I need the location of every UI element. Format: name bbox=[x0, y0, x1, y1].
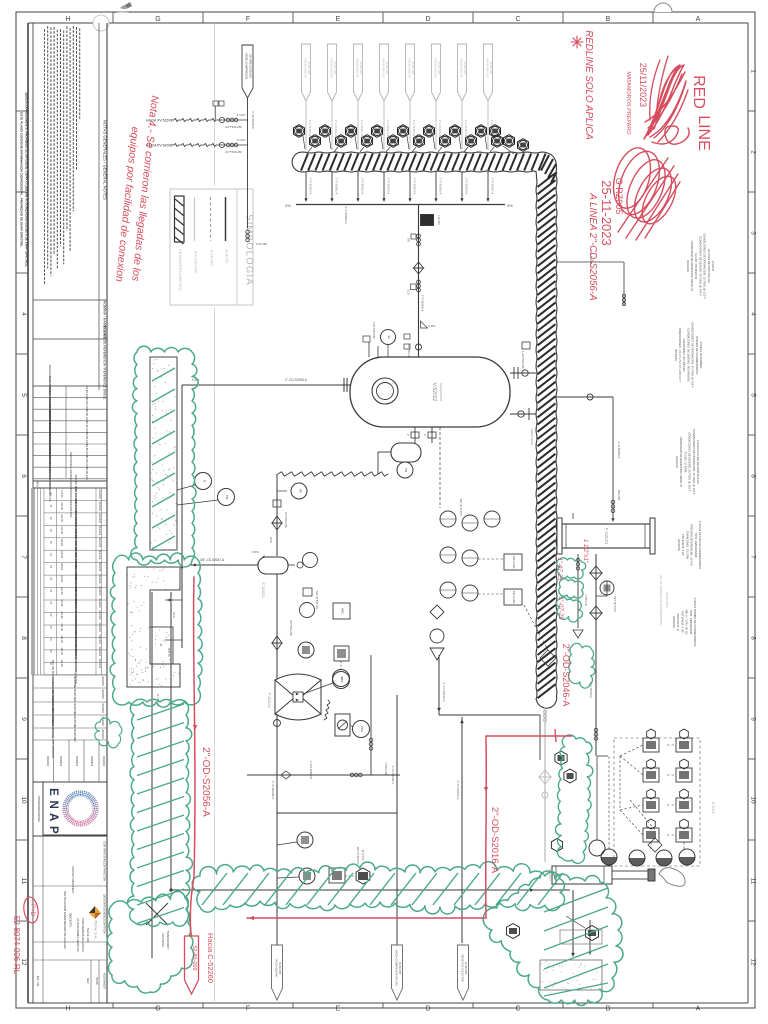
svg-text:GB JM: GB JM bbox=[60, 575, 63, 582]
svg-text:TRANSPORT.: TRANSPORT. bbox=[166, 931, 170, 950]
svg-text:REV.: REV. bbox=[36, 482, 40, 488]
svg-text:LINE: LINE bbox=[695, 115, 712, 151]
svg-text:(NUEVO): (NUEVO) bbox=[677, 539, 681, 551]
svg-text:TW: TW bbox=[225, 495, 229, 500]
svg-text:3/4"-CS-52057-A: 3/4"-CS-52057-A bbox=[200, 558, 225, 562]
svg-text:G: G bbox=[155, 1006, 160, 1013]
svg-text:SEPARADOR: SEPARADOR bbox=[439, 383, 443, 402]
svg-text:(NUEVO): (NUEVO) bbox=[686, 260, 690, 272]
svg-text:01/10/23: 01/10/23 bbox=[98, 586, 101, 596]
svg-text:03/10/23: 03/10/23 bbox=[101, 729, 104, 739]
svg-text:NOTAS GENERALES / GENERAL NOTE: NOTAS GENERALES / GENERAL NOTES bbox=[103, 120, 108, 200]
svg-text:ARC: ARC bbox=[341, 608, 345, 614]
svg-text:C: C bbox=[515, 1006, 520, 1013]
svg-text:2": 2" bbox=[423, 434, 427, 436]
svg-text:GB JM: GB JM bbox=[60, 611, 63, 618]
svg-text:DCO: DCO bbox=[407, 289, 410, 294]
svg-text:GB JM: GB JM bbox=[60, 502, 63, 509]
svg-text:D: D bbox=[425, 1006, 430, 1013]
svg-text:T500-05: T500-05 bbox=[167, 647, 170, 657]
svg-text:LIC AO: LIC AO bbox=[437, 215, 441, 225]
svg-text:RECINTO: RECINTO bbox=[69, 913, 73, 927]
svg-text:C: C bbox=[515, 16, 520, 23]
svg-text:SET @ 5 PSI: SET @ 5 PSI bbox=[613, 596, 617, 612]
svg-text:5: 5 bbox=[20, 393, 27, 397]
svg-text:4"-G-50009-A: 4"-G-50009-A bbox=[391, 766, 395, 784]
svg-text:E: E bbox=[47, 788, 59, 796]
svg-text:LI: LI bbox=[387, 336, 391, 339]
svg-text:1 1/2"T500-25F: 1 1/2"T500-25F bbox=[372, 321, 375, 339]
svg-text:TI: TI bbox=[202, 480, 206, 483]
svg-text:01/10/23: 01/10/23 bbox=[98, 489, 101, 499]
svg-text:SIMBOLOGIA: SIMBOLOGIA bbox=[244, 214, 255, 286]
svg-text:P: P bbox=[47, 826, 59, 834]
svg-text:2"-OD-S2016-A: 2"-OD-S2016-A bbox=[489, 807, 500, 874]
svg-text:REVISIONES / REVIEW DESCRIP: REVISIONES / REVIEW DESCRIPCION/DESCRIPT… bbox=[69, 452, 73, 518]
svg-text:F-52024: F-52024 bbox=[604, 528, 609, 545]
svg-text:1"-07-25: 1"-07-25 bbox=[556, 558, 562, 581]
svg-text:1: 1 bbox=[750, 69, 757, 73]
svg-text:FUT-25F: FUT-25F bbox=[256, 242, 267, 246]
svg-text:GB JM: GB JM bbox=[60, 551, 63, 558]
svg-text:K-52102: K-52102 bbox=[711, 802, 715, 814]
svg-text:52-80-0154: 52-80-0154 bbox=[665, 592, 669, 608]
svg-text:2"-OD-S2046-A: 2"-OD-S2046-A bbox=[561, 644, 571, 707]
svg-text:11: 11 bbox=[20, 878, 27, 885]
svg-text:GB JM: GB JM bbox=[60, 623, 63, 630]
svg-text:2"-F-50005-A: 2"-F-50005-A bbox=[439, 178, 443, 195]
svg-text:SET @ 550 PSI: SET @ 550 PSI bbox=[315, 591, 319, 610]
svg-text:52-80-000: 52-80-000 bbox=[307, 62, 311, 75]
svg-text:PAH: PAH bbox=[360, 726, 364, 732]
svg-text:03/10/23: 03/10/23 bbox=[101, 676, 104, 686]
svg-text:03/10/23: 03/10/23 bbox=[101, 703, 104, 713]
svg-text:3: 3 bbox=[750, 231, 757, 235]
svg-text:1"T500-25F: 1"T500-25F bbox=[384, 762, 387, 776]
svg-text:1"x3/4": 1"x3/4" bbox=[237, 113, 246, 117]
svg-text:52-80-001: 52-80-001 bbox=[333, 62, 337, 75]
svg-text:1"-F-50003-A: 1"-F-50003-A bbox=[386, 120, 390, 137]
svg-text:03/10/23: 03/10/23 bbox=[90, 756, 94, 767]
svg-text:MW: MW bbox=[407, 238, 410, 243]
svg-text:E: E bbox=[336, 1006, 341, 1013]
svg-text:3/4"T500-25F: 3/4"T500-25F bbox=[225, 125, 242, 129]
svg-text:1"T500-05: 1"T500-05 bbox=[584, 594, 587, 606]
svg-text:1"-07-25: 1"-07-25 bbox=[557, 597, 563, 620]
svg-text:8: 8 bbox=[750, 636, 757, 640]
svg-text:7: 7 bbox=[750, 555, 757, 559]
svg-text:1"-F-50005-A: 1"-F-50005-A bbox=[438, 120, 442, 137]
svg-text:1"-F-50000-A: 1"-F-50000-A bbox=[308, 120, 312, 137]
svg-text:CONTRATISTA/CONTRACTOR: CONTRATISTA/CONTRACTOR bbox=[103, 841, 107, 881]
svg-text:1"x3/4": 1"x3/4" bbox=[237, 138, 246, 142]
svg-text:E: E bbox=[336, 16, 341, 23]
svg-text:G: G bbox=[155, 16, 160, 23]
svg-text:D: D bbox=[425, 16, 430, 23]
svg-text:1"-F-50004-A: 1"-F-50004-A bbox=[412, 120, 416, 137]
svg-text:2"-F-50005-A: 2"-F-50005-A bbox=[421, 295, 425, 312]
svg-text:DCO: DCO bbox=[172, 612, 175, 618]
svg-text:GB JM: GB JM bbox=[60, 563, 63, 570]
svg-text:52-80-008: 52-80-008 bbox=[398, 962, 402, 974]
svg-text:Prime S.A.: Prime S.A. bbox=[94, 920, 99, 939]
svg-text:PLANOS DE REFERENCIA / REFEREN: PLANOS DE REFERENCIA / REFERENCE DWGS. bbox=[103, 326, 107, 400]
svg-text:SET TO 80 PSI: SET TO 80 PSI bbox=[356, 846, 359, 863]
svg-text:01/10/23: 01/10/23 bbox=[98, 635, 101, 645]
svg-text:G RZ005: G RZ005 bbox=[614, 178, 624, 215]
svg-text:F-52023: F-52023 bbox=[261, 583, 266, 599]
svg-text:RED: RED bbox=[690, 75, 707, 109]
svg-text:2"-F-50004-A: 2"-F-50004-A bbox=[413, 178, 417, 195]
svg-text:03/10/23: 03/10/23 bbox=[46, 756, 50, 767]
svg-text:03/10/23: 03/10/23 bbox=[102, 756, 106, 767]
svg-text:01/10/23: 01/10/23 bbox=[98, 647, 101, 657]
svg-text:2"-CD-S2056-A: 2"-CD-S2056-A bbox=[285, 378, 308, 382]
svg-text:GB JM: GB JM bbox=[60, 636, 63, 643]
svg-text:8: 8 bbox=[20, 636, 27, 640]
svg-text:F: F bbox=[246, 16, 250, 23]
svg-text:52-80-002: 52-80-002 bbox=[359, 62, 363, 75]
svg-text:3/4"T500-25F: 3/4"T500-25F bbox=[225, 150, 242, 154]
svg-text:7: 7 bbox=[20, 555, 27, 559]
svg-text:2"-F-50003-A: 2"-F-50003-A bbox=[387, 178, 391, 195]
svg-text:5: 5 bbox=[750, 393, 757, 397]
svg-text:QUEDA EXPRESAMENTE PROHIBIDA S: QUEDA EXPRESAMENTE PROHIBIDA SU DIFUSION… bbox=[25, 93, 29, 268]
svg-text:52-80-004: 52-80-004 bbox=[411, 62, 415, 75]
svg-text:03/10/23: 03/10/23 bbox=[59, 756, 63, 767]
svg-text:01/10/23: 01/10/23 bbox=[98, 562, 101, 572]
svg-text:V-52022: V-52022 bbox=[431, 383, 437, 402]
svg-text:1/2"T500-25F: 1/2"T500-25F bbox=[284, 512, 288, 528]
svg-text:FUTURO: FUTURO bbox=[210, 250, 215, 267]
svg-text:GB JM: GB JM bbox=[60, 490, 63, 497]
svg-text:9: 9 bbox=[20, 717, 27, 721]
svg-text:VIENE PIG COLECTOR: VIENE PIG COLECTOR bbox=[461, 954, 465, 982]
svg-text:DCO: DCO bbox=[269, 537, 273, 543]
svg-text:52-80-007: 52-80-007 bbox=[489, 62, 493, 75]
svg-text:1"-F-50006-A: 1"-F-50006-A bbox=[464, 120, 468, 137]
svg-text:50-80: 50-80 bbox=[95, 977, 99, 985]
svg-text:GB JM: GB JM bbox=[60, 660, 63, 667]
svg-text:4: 4 bbox=[20, 312, 27, 316]
svg-text:6: 6 bbox=[20, 474, 27, 478]
svg-text:INSTALACION COMPRESOR DE GAS E: INSTALACION COMPRESOR DE GAS EN bbox=[63, 891, 67, 948]
svg-text:B: B bbox=[606, 1006, 611, 1013]
svg-text:Hacia C-52260: Hacia C-52260 bbox=[206, 933, 215, 983]
svg-text:GB JM: GB JM bbox=[60, 539, 63, 546]
svg-text:DE AIRE 52-80-010: DE AIRE 52-80-010 bbox=[249, 54, 253, 78]
svg-text:9: 9 bbox=[750, 717, 757, 721]
svg-text:4: 4 bbox=[750, 312, 757, 316]
svg-text:(NUEVO): (NUEVO) bbox=[675, 456, 679, 468]
svg-text:01/10/23: 01/10/23 bbox=[98, 659, 101, 669]
svg-text:PG: PG bbox=[404, 468, 408, 473]
svg-text:H: H bbox=[65, 16, 70, 23]
svg-text:1"-FL-50010-A: 1"-FL-50010-A bbox=[442, 682, 446, 702]
svg-text:52-80-005: 52-80-005 bbox=[437, 62, 441, 75]
svg-text:3/4"T500-25F: 3/4"T500-25F bbox=[289, 620, 293, 636]
svg-text:52-80-009: 52-80-009 bbox=[191, 945, 197, 970]
svg-text:25/11/2023: 25/11/2023 bbox=[638, 63, 648, 107]
svg-text:ARC: ARC bbox=[340, 677, 344, 683]
svg-text:TEA R-301: TEA R-301 bbox=[86, 928, 90, 943]
svg-text:11: 11 bbox=[750, 878, 757, 885]
svg-text:01/10/23: 01/10/23 bbox=[98, 574, 101, 584]
svg-text:01/10/23: 01/10/23 bbox=[98, 538, 101, 548]
svg-text:1"-CS-52003-B: 1"-CS-52003-B bbox=[309, 761, 313, 779]
svg-text:2": 2" bbox=[406, 434, 410, 436]
svg-text:2"-F-50001-A: 2"-F-50001-A bbox=[335, 178, 339, 195]
svg-text:1 1/2"x1": 1 1/2"x1" bbox=[582, 539, 588, 564]
svg-text:A: A bbox=[696, 1006, 701, 1013]
svg-text:1 1/2"T500-25F: 1 1/2"T500-25F bbox=[521, 351, 525, 369]
svg-text:ESC. S/E: ESC. S/E bbox=[36, 976, 39, 987]
svg-text:N: N bbox=[47, 800, 59, 808]
svg-text:01/10/23: 01/10/23 bbox=[98, 550, 101, 560]
svg-text:01/10/23: 01/10/23 bbox=[98, 501, 101, 511]
svg-text:2"-F-50002-A: 2"-F-50002-A bbox=[361, 178, 365, 195]
svg-text:4%: 4% bbox=[507, 203, 513, 208]
svg-text:REV: REV bbox=[86, 978, 89, 983]
svg-text:P+D: P+D bbox=[29, 904, 35, 917]
svg-text:B: B bbox=[606, 16, 611, 23]
svg-text:03/10/23: 03/10/23 bbox=[101, 689, 104, 699]
svg-text:GB JM: GB JM bbox=[60, 527, 63, 534]
svg-text:P-52024: P-52024 bbox=[267, 692, 272, 708]
svg-text:6: 6 bbox=[750, 474, 757, 478]
svg-text:1"-IA-52009-A: 1"-IA-52009-A bbox=[251, 111, 255, 129]
svg-text:01/10/23: 01/10/23 bbox=[98, 610, 101, 620]
svg-text:REDLINE SOLO APLICA: REDLINE SOLO APLICA bbox=[583, 30, 594, 140]
svg-text:03/10/23: 03/10/23 bbox=[75, 756, 79, 767]
svg-text:2"-F-50000-A: 2"-F-50000-A bbox=[309, 178, 313, 195]
svg-text:L. MARTINEZ: L. MARTINEZ bbox=[73, 726, 76, 742]
svg-text:JC: JC bbox=[159, 643, 163, 646]
svg-text:4"-G-50009-A: 4"-G-50009-A bbox=[271, 781, 275, 799]
svg-text:52-80-008: 52-80-008 bbox=[278, 962, 282, 974]
svg-text:GB JM: GB JM bbox=[60, 587, 63, 594]
svg-text:(NUEVO): (NUEVO) bbox=[672, 616, 676, 628]
svg-text:52-80-003: 52-80-003 bbox=[385, 62, 389, 75]
svg-text:1"-A-50008-A: 1"-A-50008-A bbox=[617, 442, 621, 459]
svg-text:VIA CINTA: VIA CINTA bbox=[161, 933, 165, 947]
svg-text:HOJA/SHEET: HOJA/SHEET bbox=[103, 973, 107, 990]
svg-text:2"-F-50007-A: 2"-F-50007-A bbox=[491, 178, 495, 195]
svg-text:52-80-006: 52-80-006 bbox=[463, 62, 467, 75]
svg-text:AGUA SALV: AGUA SALV bbox=[530, 429, 534, 446]
svg-text:1"-F-50001-A: 1"-F-50001-A bbox=[334, 120, 338, 137]
svg-text:PI: PI bbox=[298, 489, 302, 492]
svg-text:(NUEVO): (NUEVO) bbox=[674, 349, 678, 361]
svg-text:4"-FL-50010-A: 4"-FL-50010-A bbox=[456, 780, 460, 800]
svg-text:DESCRIPCION/DESCRIPTION: DESCRIPCION/DESCRIPTION bbox=[103, 894, 107, 933]
svg-text:EXISTENTE: EXISTENTE bbox=[194, 251, 199, 274]
svg-text:4"-F-50007-A: 4"-F-50007-A bbox=[344, 206, 348, 224]
svg-text:NUEVO: NUEVO bbox=[225, 249, 230, 263]
svg-text:A LINEA 2"-CD-S2056-A: A LINEA 2"-CD-S2056-A bbox=[587, 192, 598, 301]
svg-text:01/10/23: 01/10/23 bbox=[98, 514, 101, 524]
svg-text:12: 12 bbox=[750, 958, 757, 966]
svg-text:A: A bbox=[47, 813, 59, 821]
svg-text:2"-OD-S2056-A: 2"-OD-S2056-A bbox=[200, 747, 211, 817]
svg-text:PROPIEDAD/OWNER: PROPIEDAD/OWNER bbox=[37, 796, 41, 822]
svg-text:GB JM: GB JM bbox=[60, 515, 63, 522]
svg-text:GB JM: GB JM bbox=[60, 599, 63, 606]
svg-text:2: 2 bbox=[750, 150, 757, 154]
svg-text:HACIA QUEMA: HACIA QUEMA bbox=[275, 959, 279, 977]
svg-text:DESMANTELAMIENTO: DESMANTELAMIENTO bbox=[178, 249, 183, 292]
svg-text:2"-F-50006-A: 2"-F-50006-A bbox=[465, 178, 469, 195]
svg-text:HACIA COMPRESOR DE GAS: HACIA COMPRESOR DE GAS bbox=[395, 950, 399, 986]
svg-text:01/10/23: 01/10/23 bbox=[98, 622, 101, 632]
svg-text:PAM SIERRA DE ASPAS: PAM SIERRA DE ASPAS bbox=[81, 918, 85, 952]
svg-text:10: 10 bbox=[20, 796, 27, 804]
svg-text:GB JM: GB JM bbox=[60, 648, 63, 655]
svg-text:VIENE COMPRESOR: VIENE COMPRESOR bbox=[245, 53, 249, 79]
svg-text:SET @ 15 PSI: SET @ 15 PSI bbox=[459, 499, 463, 516]
svg-text:ARC FLUJO: ARC FLUJO bbox=[512, 556, 515, 569]
svg-text:ARC FLUJO: ARC FLUJO bbox=[512, 591, 515, 604]
svg-text:T500-25F: T500-25F bbox=[617, 490, 620, 501]
svg-text:4%: 4% bbox=[285, 203, 291, 208]
svg-text:52-80-008: 52-80-008 bbox=[464, 962, 468, 974]
svg-text:0.5%: 0.5% bbox=[429, 324, 436, 328]
svg-text:H: H bbox=[65, 1006, 70, 1013]
svg-text:SE VE SISTEMA DE INFORMACION: SE VE SISTEMA DE INFORMACION bbox=[659, 575, 663, 625]
svg-text:52-8074-006-RL: 52-8074-006-RL bbox=[12, 916, 21, 975]
svg-text:ESTE PLANO CONTIENE INFORMACIO: ESTE PLANO CONTIENE INFORMACION CONFIDEN… bbox=[20, 112, 24, 248]
svg-text:PROYECTO/PROJECT: PROYECTO/PROJECT bbox=[71, 866, 75, 894]
svg-text:0.5%: 0.5% bbox=[252, 550, 259, 554]
svg-text:10: 10 bbox=[750, 796, 757, 804]
svg-text:25-11-2023: 25-11-2023 bbox=[599, 180, 614, 246]
svg-text:01/10/23: 01/10/23 bbox=[98, 526, 101, 536]
svg-text:1"-F-50002-A: 1"-F-50002-A bbox=[360, 120, 364, 137]
svg-text:52-80-XXX: 52-80-XXX bbox=[85, 467, 89, 480]
svg-text:A: A bbox=[696, 16, 701, 23]
svg-text:PLATAFORMA SEDC-02: PLATAFORMA SEDC-02 bbox=[76, 918, 80, 952]
svg-text:01/10/23: 01/10/23 bbox=[98, 598, 101, 608]
svg-text:@ 10 PSI: @ 10 PSI bbox=[361, 850, 364, 861]
svg-text:F: F bbox=[246, 1006, 250, 1013]
svg-text:MATAMOROS PREPARO: MATAMOROS PREPARO bbox=[625, 71, 631, 135]
